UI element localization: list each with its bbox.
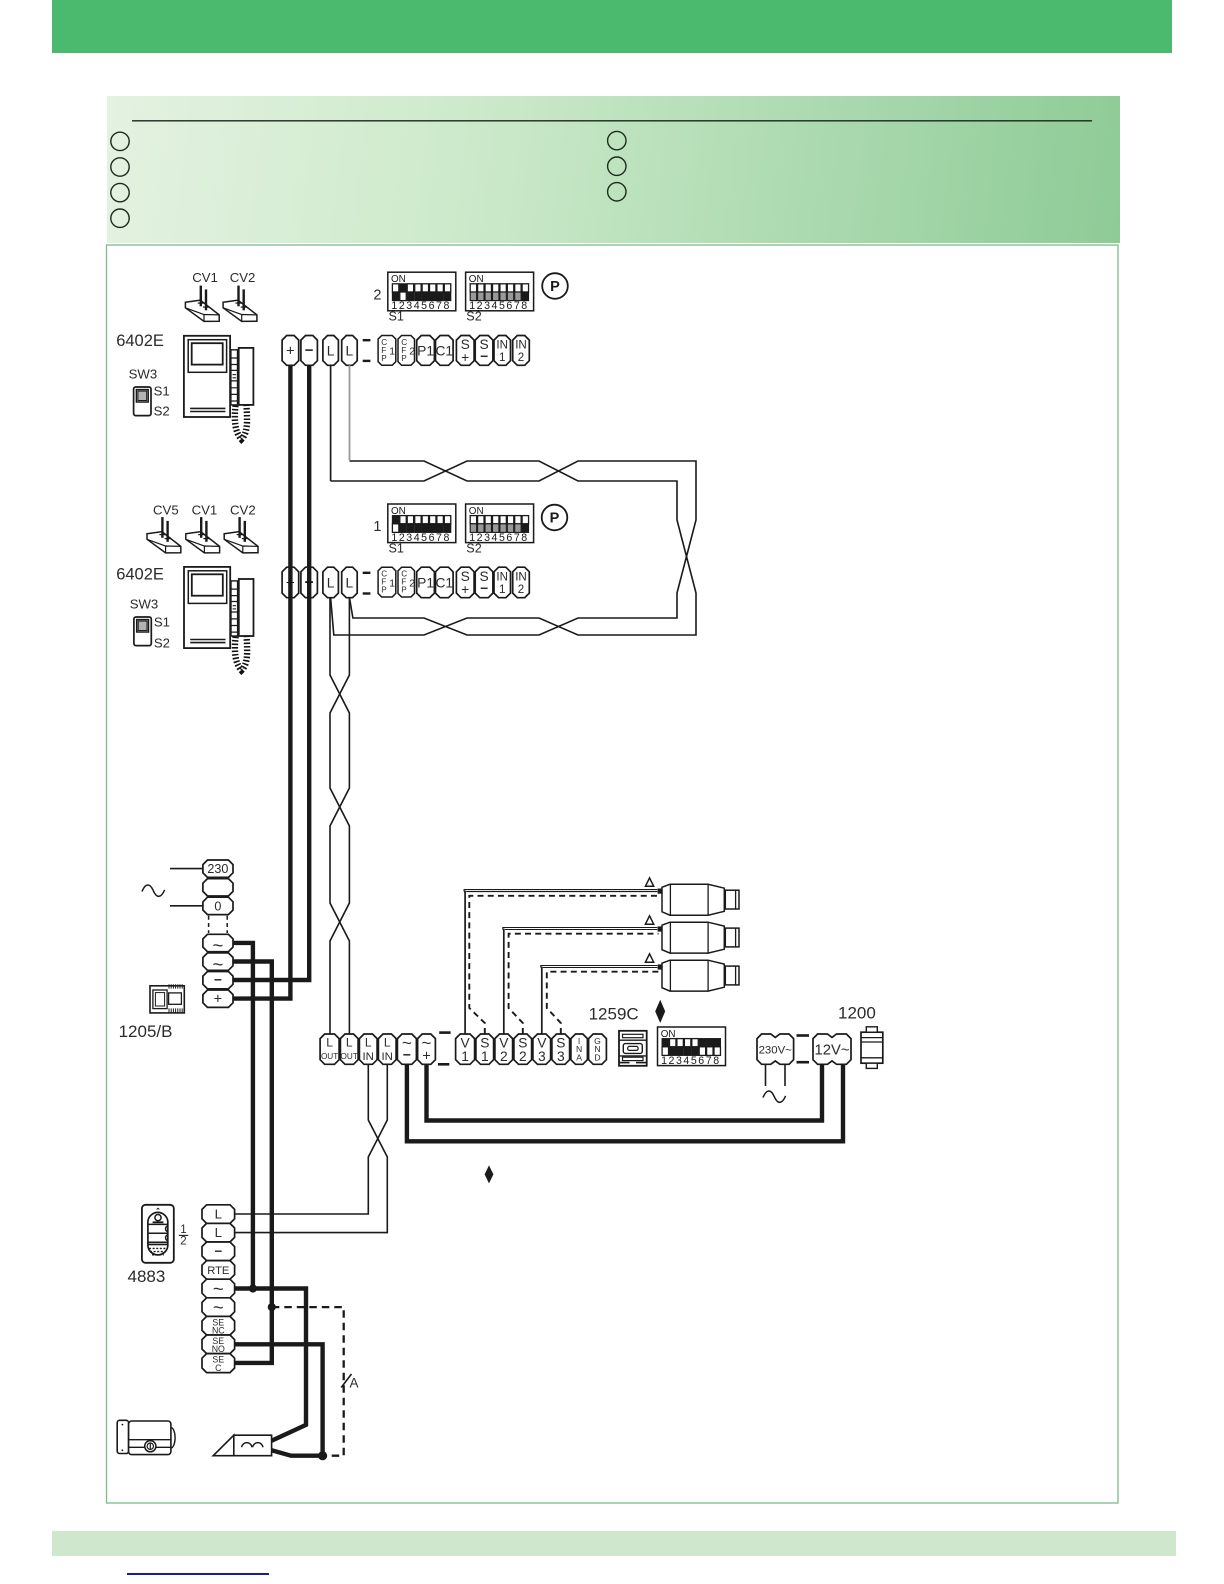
dip-switch S1 (unit 1) <box>388 272 456 312</box>
dashed wire release switch branch <box>272 1307 344 1456</box>
svg-text:CV2: CV2 <box>230 503 256 518</box>
svg-text:S1: S1 <box>154 615 170 630</box>
terminal L IN b (distributor) <box>378 1034 396 1064</box>
svg-text:2: 2 <box>500 1049 508 1064</box>
diagram frame <box>107 245 1119 1503</box>
camera 1 video wire (V1) <box>464 892 465 1034</box>
wire L1 drop (unit 1) <box>330 365 332 481</box>
svg-text:−: − <box>305 342 314 359</box>
svg-text:SW3: SW3 <box>130 597 159 612</box>
terminal ~2 (4883) <box>202 1297 235 1318</box>
svg-text:S1: S1 <box>389 310 404 324</box>
terminal C1 (unit 1) <box>435 336 453 366</box>
svg-text:−: − <box>214 1243 222 1258</box>
terminal L b (unit 2) <box>342 567 358 597</box>
svg-text:−: − <box>305 574 314 591</box>
distributor module icon <box>619 1031 647 1066</box>
header rule <box>132 120 1092 122</box>
terminal − (4883) <box>202 1242 235 1261</box>
terminal CFP2 (unit 2) <box>398 567 415 597</box>
terminal L2 (4883) <box>202 1223 235 1242</box>
wire ~+ to 12V~ left <box>427 1064 823 1120</box>
svg-text:S1: S1 <box>389 541 404 555</box>
terminal 0 (1205/B) <box>203 897 233 914</box>
svg-text:4883: 4883 <box>128 1267 166 1286</box>
svg-text:P: P <box>381 354 387 363</box>
svg-text:+: + <box>461 350 469 365</box>
terminal V1 (distributor) <box>456 1034 475 1064</box>
svg-text:L: L <box>346 343 354 358</box>
svg-text:L: L <box>365 1035 372 1049</box>
terminal P1 (unit 2) <box>417 567 435 597</box>
camera 3 (CCTV) <box>645 954 739 991</box>
svg-text:L: L <box>384 1035 391 1049</box>
svg-text:OUT: OUT <box>341 1052 358 1061</box>
svg-text:0: 0 <box>214 899 221 913</box>
header bullet circle M1 <box>608 131 626 149</box>
terminal S1 (distributor) <box>476 1034 494 1064</box>
terminal L a (unit 2) <box>323 567 339 597</box>
dip-switch S2 (unit 1) <box>466 272 534 312</box>
svg-text:+: + <box>422 1049 430 1065</box>
riser pair wire C (U2 L1 to L OUT b) <box>330 598 349 1034</box>
svg-text:P: P <box>550 511 560 527</box>
svg-text:1: 1 <box>389 577 395 589</box>
row gap dash upper (distributor) <box>439 1031 450 1034</box>
svg-text:IN: IN <box>515 339 527 352</box>
jumper CV1 (unit 2) <box>186 517 220 553</box>
riser pair wire A (U1 L2 to U2 L2) <box>350 461 697 635</box>
svg-text:IN: IN <box>515 570 527 583</box>
svg-text:SW3: SW3 <box>129 367 158 382</box>
jumper CV2 (unit 1) <box>223 286 257 322</box>
svg-text:CV2: CV2 <box>230 270 256 285</box>
230V pin wire right <box>784 1064 786 1086</box>
terminal blank (1205/B) <box>203 879 233 896</box>
svg-text:12345678: 12345678 <box>661 1055 719 1067</box>
terminal INA (distributor) <box>571 1034 587 1064</box>
svg-text:1200: 1200 <box>838 1004 876 1023</box>
svg-text:2: 2 <box>373 287 381 303</box>
camera 1 video wire lower edge <box>466 891 657 893</box>
mains wire 230 <box>170 868 203 870</box>
svg-text:P: P <box>550 279 560 295</box>
transformer 1200 icon <box>861 1027 883 1069</box>
programming circle P (unit 1) <box>542 273 568 299</box>
terminal SE NO (4883) <box>202 1335 235 1354</box>
svg-text:L: L <box>215 1225 222 1240</box>
bottom green band <box>52 1531 1176 1556</box>
junction dot (lock / SE NO / switch A) <box>318 1451 327 1460</box>
dip-switch S2 (unit 2) <box>466 504 534 544</box>
svg-text:S2: S2 <box>154 635 170 650</box>
row gap dash upper (unit 1) <box>363 339 371 341</box>
dashed link left (1205/B) <box>208 916 210 933</box>
terminal 230V~ (mains in) <box>757 1034 794 1064</box>
dashed link right (1205/B) <box>226 916 228 933</box>
svg-text:CV1: CV1 <box>192 270 218 285</box>
footer blue rule <box>127 1573 269 1575</box>
svg-text:1: 1 <box>481 1049 489 1064</box>
svg-text:P1: P1 <box>417 575 434 590</box>
svg-text:230: 230 <box>207 862 228 876</box>
camera 3 video wire lower edge <box>543 967 658 969</box>
svg-text:2: 2 <box>519 1049 527 1064</box>
monitor U2 6402E <box>184 567 254 671</box>
jumper CV5 (unit 2) <box>147 517 181 553</box>
svg-text:S2: S2 <box>466 541 481 555</box>
svg-text:P: P <box>401 586 407 595</box>
dip-switch block (1259C) <box>658 1027 726 1067</box>
svg-text:6402E: 6402E <box>116 332 164 350</box>
terminal L OUT b (distributor) <box>340 1034 358 1064</box>
svg-text:C1: C1 <box>435 343 453 358</box>
svg-text:L: L <box>346 1035 353 1049</box>
wire 4883 SE NO to lock <box>235 1344 323 1455</box>
svg-text:D: D <box>594 1052 600 1062</box>
note diamond (1259C) <box>655 1000 665 1023</box>
svg-text:1: 1 <box>389 346 395 358</box>
dip-switch S1 (unit 2) <box>388 504 456 544</box>
terminal + (unit 1) <box>282 336 299 366</box>
svg-text:+: + <box>461 582 469 597</box>
svg-text:−: − <box>403 1046 411 1062</box>
svg-text:L: L <box>215 1207 222 1222</box>
terminal ~− (distributor) <box>397 1034 416 1065</box>
header gradient panel <box>107 96 1120 243</box>
power supply 1205/B icon <box>150 984 184 1013</box>
top green band <box>52 0 1172 53</box>
wire 4883 ~1 to lock coil <box>235 1289 306 1441</box>
svg-text:2: 2 <box>518 351 524 364</box>
svg-text:~: ~ <box>213 1297 224 1318</box>
mains sine symbol (1200) <box>763 1091 786 1102</box>
terminal CFP2 (unit 1) <box>398 336 415 366</box>
svg-text:RTE: RTE <box>207 1265 229 1277</box>
svg-text:2: 2 <box>409 577 415 589</box>
svg-text:IN: IN <box>362 1051 373 1063</box>
terminal L b (unit 1) <box>342 336 358 366</box>
terminal 12V~ (1200 out) <box>813 1034 851 1064</box>
row gap dash lower (unit 1) <box>363 360 371 362</box>
wire − bus (unit1/unit2 to 1205/B −) <box>233 365 309 980</box>
terminal S+ (unit 2) <box>456 567 474 597</box>
svg-text:NO: NO <box>212 1344 225 1354</box>
camera 2 video wire upper edge <box>503 928 658 930</box>
svg-text:L: L <box>327 575 335 590</box>
mains sine symbol (1205/B) <box>142 885 165 896</box>
switch blade A <box>341 1374 351 1388</box>
entrance panel 4883 icon <box>142 1205 174 1263</box>
camera 1 (CCTV) <box>645 878 739 915</box>
monitor U1 6402E <box>184 336 254 440</box>
svg-text:S2: S2 <box>154 404 170 419</box>
wire L IN a to 4883 L2 <box>235 1064 388 1232</box>
svg-text:CV5: CV5 <box>153 503 179 518</box>
terminal V3 (distributor) <box>533 1034 551 1064</box>
svg-text:NC: NC <box>212 1326 225 1336</box>
svg-text:2: 2 <box>518 583 524 596</box>
switch SW3 icon (unit 2) <box>134 617 151 646</box>
header bullet circle L1 <box>111 132 129 150</box>
camera 3 sync wire dashed (S3) <box>547 972 659 1034</box>
riser pair wire D (U2 L2 to L OUT a) <box>330 598 349 1034</box>
svg-text:P: P <box>381 586 387 595</box>
wire L IN b to 4883 L1 <box>235 1064 388 1214</box>
svg-text:+: + <box>286 342 295 359</box>
mains wire 0 <box>170 905 203 907</box>
svg-text:L: L <box>327 343 335 358</box>
wire L2 drop gray (unit 1) <box>349 365 351 460</box>
svg-text:IN: IN <box>496 570 508 583</box>
svg-text:230V~: 230V~ <box>759 1044 793 1056</box>
terminal IN1 (unit 2) <box>494 567 511 597</box>
junction dot (1205/B ~1 / 4883 ~1) <box>249 1284 257 1292</box>
row gap dash upper (unit 2) <box>363 572 371 574</box>
terminal IN2 (unit 1) <box>513 336 530 366</box>
svg-text:OUT: OUT <box>321 1052 338 1061</box>
terminal ~1 (1205/B) <box>203 934 233 955</box>
row gap dash lower (unit 2) <box>363 592 371 594</box>
header bullet circle L2 <box>111 158 129 176</box>
230V pin wire left <box>765 1064 767 1086</box>
terminal S− (unit 1) <box>475 336 493 366</box>
camera 2 (CCTV) <box>645 916 739 953</box>
svg-text:1205/B: 1205/B <box>119 1022 173 1041</box>
camera 1 sync wire dashed (S1) <box>469 896 658 1034</box>
camera 3 video wire (V3) <box>541 968 542 1035</box>
terminal L a (unit 1) <box>323 336 339 366</box>
terminal − (unit 2) <box>301 567 318 597</box>
terminal − (1205/B) <box>203 972 233 989</box>
svg-text:2: 2 <box>180 1235 186 1247</box>
svg-text:2: 2 <box>409 346 415 358</box>
svg-text:−: − <box>480 581 488 596</box>
svg-text:S1: S1 <box>154 383 170 398</box>
terminal SE NC (4883) <box>202 1316 235 1335</box>
wire ~− to 12V~ right <box>407 1064 843 1141</box>
terminal C1 (unit 2) <box>435 567 453 597</box>
wire 1205/B ~2 to 4883 ~2 and SE C <box>233 962 272 1363</box>
header bullet circle L4 <box>111 209 129 227</box>
terminal S2 (distributor) <box>514 1034 532 1064</box>
terminal SE C (4883) <box>202 1354 235 1373</box>
svg-text:C1: C1 <box>435 575 453 590</box>
terminal GND (distributor) <box>589 1034 607 1064</box>
gap dash upper (230V/12V) <box>797 1034 810 1037</box>
header bullet circle M2 <box>608 157 626 175</box>
svg-text:P1: P1 <box>417 343 434 358</box>
svg-text:1: 1 <box>373 519 381 535</box>
svg-text:3: 3 <box>538 1049 546 1064</box>
terminal L1 (4883) <box>202 1205 235 1224</box>
riser pair wire B (U1 L1 to U2 L1) <box>331 461 696 635</box>
terminal ~+ (distributor) <box>418 1034 436 1065</box>
wire + bus (unit1/unit2 to 1205/B +) <box>233 365 290 998</box>
terminal IN1 (unit 1) <box>494 336 511 366</box>
terminal ~2 (1205/B) <box>203 953 233 974</box>
svg-text:+: + <box>286 574 295 591</box>
terminal IN2 (unit 2) <box>513 567 530 597</box>
terminal S− (unit 2) <box>475 567 493 597</box>
terminal 230 (1205/B) <box>203 860 233 877</box>
note diamond (12V wiring) <box>485 1165 494 1183</box>
camera 3 video wire upper edge <box>541 966 658 968</box>
terminal + (unit 2) <box>282 567 299 597</box>
divider under label 1 <box>179 1234 188 1236</box>
terminal L OUT a (distributor) <box>320 1034 339 1064</box>
terminal S+ (unit 1) <box>456 336 474 366</box>
svg-text:L: L <box>326 1035 333 1049</box>
jumper CV2 (unit 2) <box>224 517 258 553</box>
terminal P1 (unit 1) <box>417 336 435 366</box>
terminal ~1 (4883) <box>202 1278 235 1299</box>
terminal L IN a (distributor) <box>359 1034 377 1064</box>
programming circle P (unit 2) <box>542 505 568 531</box>
terminal RTE (4883) <box>202 1261 235 1280</box>
svg-text:6402E: 6402E <box>116 565 164 583</box>
junction dot (1205/B ~2 / 4883 ~2 / switch A) <box>268 1303 276 1311</box>
terminal CFP1 (unit 1) <box>378 336 396 366</box>
svg-text:A: A <box>350 1376 359 1391</box>
terminal V2 (distributor) <box>495 1034 513 1064</box>
svg-text:A: A <box>576 1052 582 1062</box>
header bullet circle L3 <box>111 183 129 201</box>
svg-text:1: 1 <box>499 583 505 596</box>
terminal − (unit 1) <box>301 336 318 366</box>
svg-text:C: C <box>215 1363 222 1373</box>
row gap dash lower (distributor) <box>438 1063 449 1066</box>
svg-text:P: P <box>401 354 407 363</box>
terminal S3 (distributor) <box>552 1034 570 1064</box>
svg-text:S2: S2 <box>466 310 481 324</box>
svg-text:L: L <box>346 575 354 590</box>
header bullet circle M3 <box>608 183 626 201</box>
svg-text:1: 1 <box>499 351 505 364</box>
svg-text:−: − <box>214 972 222 987</box>
terminal CFP1 (unit 2) <box>378 567 396 597</box>
svg-text:IN: IN <box>381 1051 392 1063</box>
svg-text:1259C: 1259C <box>589 1005 639 1024</box>
wire 1205/B ~1 to 4883 ~1 <box>233 943 253 1289</box>
camera 2 video wire lower edge <box>505 929 657 931</box>
svg-text:IN: IN <box>496 339 508 352</box>
svg-text:−: − <box>480 349 488 364</box>
camera 2 video wire (V2) <box>503 930 504 1035</box>
svg-text:+: + <box>214 992 222 1008</box>
camera 2 sync wire dashed (S2) <box>509 934 659 1034</box>
svg-text:3: 3 <box>557 1049 565 1064</box>
wire lock coil to junction <box>272 1450 323 1455</box>
svg-text:1: 1 <box>180 1224 186 1236</box>
svg-text:1: 1 <box>461 1049 469 1064</box>
lock release coil symbol <box>213 1435 271 1456</box>
gap dash lower (230V/12V) <box>797 1061 810 1064</box>
svg-text:12V~: 12V~ <box>815 1043 850 1059</box>
terminal + (1205/B) <box>203 990 233 1008</box>
jumper CV1 (unit 1) <box>185 286 219 322</box>
camera 1 video wire upper edge <box>464 890 657 892</box>
electric lock icon <box>117 1420 175 1454</box>
switch SW3 icon (unit 1) <box>134 387 151 416</box>
svg-text:CV1: CV1 <box>192 503 218 518</box>
